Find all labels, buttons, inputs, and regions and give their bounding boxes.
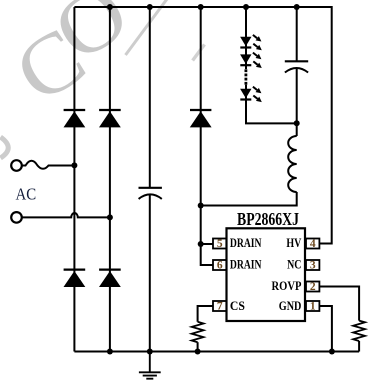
wire freewheel diode leg <box>200 7 202 245</box>
AC terminal upper <box>11 160 22 171</box>
node AC2 <box>107 214 113 220</box>
svg-text:BP2866XJ: BP2866XJ <box>237 209 299 229</box>
svg-text:DRAIN: DRAIN <box>230 257 262 271</box>
resistor R2 (ROVP) <box>353 321 365 341</box>
wire bridge right leg <box>109 7 111 352</box>
svg-text:2: 2 <box>310 281 316 293</box>
LED2 <box>240 53 262 68</box>
pin 2 box <box>306 282 319 292</box>
wire top bus to HV <box>74 7 331 244</box>
svg-text:HV: HV <box>286 236 301 250</box>
node top LED <box>243 4 249 10</box>
wire GND pin1 to bottom bus <box>319 306 332 352</box>
diode D1 <box>64 110 86 127</box>
AC terminal lower <box>11 212 22 223</box>
capacitor C1 <box>139 188 162 199</box>
wire input cap leg lower <box>149 195 151 352</box>
node AC1 <box>71 162 77 168</box>
LED3 <box>240 87 262 102</box>
watermark arc fragment left edge <box>1 137 9 158</box>
inductor L1 <box>288 136 297 192</box>
node top C2 <box>294 4 300 10</box>
capacitor C2 <box>285 61 308 72</box>
pin 1 box <box>306 301 319 311</box>
wire R1 bottom lead <box>197 342 199 351</box>
node top D2 <box>107 4 113 10</box>
wire ROVP pin2 to resistor <box>319 287 359 321</box>
diode D3 <box>64 270 86 287</box>
node bottom R1 <box>195 349 201 355</box>
wire DRAIN pin5 stub <box>201 243 213 245</box>
svg-text:7: 7 <box>217 301 223 313</box>
svg-text:6: 6 <box>217 260 223 272</box>
pin 7 box <box>213 301 227 311</box>
svg-text:4: 4 <box>310 238 316 250</box>
ground <box>139 352 161 379</box>
pin 4 box <box>306 239 319 249</box>
fuse <box>22 161 75 169</box>
watermark stroke fragment <box>193 45 205 61</box>
wire output cap to node <box>296 69 298 136</box>
node SW <box>198 203 204 209</box>
svg-text:5: 5 <box>217 238 223 250</box>
wire inductor bottom to drain node <box>201 192 297 206</box>
diode D4 <box>99 270 121 287</box>
wire LED string lower and to node <box>246 85 297 124</box>
wire LED string leg <box>245 7 247 69</box>
wire output cap leg upper <box>296 7 298 61</box>
node bottom D4 <box>107 349 113 355</box>
wire bridge left leg <box>73 7 75 352</box>
LED string ellipsis dots <box>245 69 248 84</box>
watermark <box>0 0 167 121</box>
diode D5 freewheel <box>190 110 212 127</box>
node LED out <box>294 120 300 126</box>
svg-text:ROVP: ROVP <box>272 279 302 293</box>
svg-text:GND: GND <box>279 299 302 313</box>
wire R2 bottom lead <box>358 341 360 352</box>
svg-text:AC: AC <box>16 185 37 204</box>
wire AC lower with hop <box>22 213 110 217</box>
wire DRAIN pin6 connection <box>201 244 213 265</box>
wire input cap leg upper <box>149 7 151 188</box>
node top D5 <box>198 4 204 10</box>
svg-text:DRAIN: DRAIN <box>230 236 262 250</box>
svg-text:1: 1 <box>310 301 316 313</box>
wire CS pin7 to resistor <box>198 306 213 322</box>
op IC U1 BP2866XJ body <box>227 228 306 321</box>
node bottom C1 <box>147 349 153 355</box>
pin 6 box <box>213 260 227 270</box>
LED1 <box>240 35 262 50</box>
wire bottom bus <box>74 351 359 353</box>
node DRAIN <box>198 241 204 247</box>
diode D2 <box>99 110 121 127</box>
svg-text:NC: NC <box>287 257 301 271</box>
resistor R1 (CS) <box>192 322 204 342</box>
node bottom GND <box>329 349 335 355</box>
svg-text:CS: CS <box>230 299 245 313</box>
pin 3 box <box>306 260 319 270</box>
node top C1 <box>147 4 153 10</box>
svg-text:3: 3 <box>310 260 316 272</box>
pin 5 box <box>213 239 227 249</box>
